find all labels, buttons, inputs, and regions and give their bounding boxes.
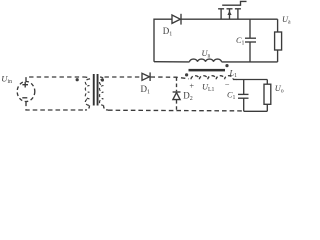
resistor load (Uo branch) — [264, 80, 271, 112]
inductor L1 (dashed, output choke) — [191, 76, 233, 80]
capacitor C1 (output) — [238, 80, 249, 112]
wire: dashed D2 branch down — [176, 77, 178, 91]
wire: dashed bottom rail (primary side) and source lead — [26, 102, 85, 111]
polarity dot (primary) — [76, 78, 79, 81]
wire: top circuit left vertical and top rail to D1 anode — [154, 19, 172, 62]
transformer secondary winding (dashed vertical) — [100, 79, 104, 105]
wire: dashed primary top rail (source to transformer) — [26, 77, 84, 82]
wire: bottom rail of top circuit — [154, 61, 278, 63]
diode D1 (top auxiliary circuit) — [172, 15, 180, 23]
wire: dashed rail D1 cathode to L1 — [151, 77, 189, 79]
capacitor C1 (top) — [245, 19, 256, 62]
wire: top rail from D1 cathode to output corner — [182, 18, 278, 20]
polarity dot (N2 winding, right) — [225, 64, 228, 67]
wire: L1 to output node (dash then solid) — [233, 78, 237, 80]
polarity dot (secondary) — [101, 78, 104, 81]
wire: dashed D2 anode to bottom rail — [176, 100, 178, 110]
resistor load (Ua branch) — [275, 19, 282, 62]
wire: hook from rail into secondary winding — [100, 77, 104, 80]
core bar (coupling between N2 and L1) — [189, 69, 226, 72]
wire: hook from secondary winding into bottom rail — [104, 105, 109, 110]
diode D2 (freewheeling, solid) — [173, 91, 181, 93]
wire: dashed bottom rail (secondary side) — [108, 109, 244, 112]
wire: hook from rail into primary winding — [84, 77, 90, 80]
svg-text:−: − — [225, 80, 230, 89]
source Uin (dashed circle with +/-) — [17, 82, 35, 102]
transistor Q1 (MOSFET, horizontal) — [218, 1, 246, 19]
polarity dot (L1 left) — [185, 73, 188, 76]
diode D1 (output rectifier, solid) — [142, 73, 149, 80]
transformer core (two vertical bars) — [93, 74, 95, 106]
wire: dashed secondary top rail to D1 — [105, 76, 142, 78]
inductor winding N2 (coupled winding, top) — [190, 59, 222, 62]
wire: solid output bottom rail — [244, 110, 268, 112]
wire: hook from primary winding into bottom rail — [85, 105, 90, 110]
svg-text:+: + — [189, 81, 194, 90]
transformer primary winding (dashed vertical) — [85, 79, 89, 105]
